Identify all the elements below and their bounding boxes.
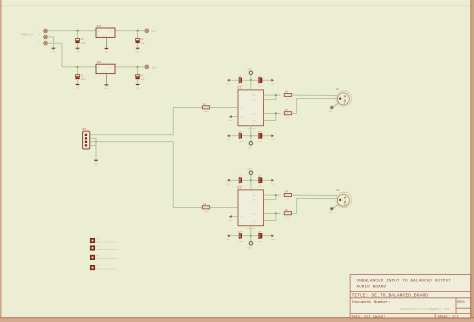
wire IC2 OUT+ — [264, 199, 276, 201]
svg-text:XLR3F: XLR3F — [341, 90, 347, 93]
wire to C3 — [77, 67, 79, 75]
wire IC2 V+ pin — [250, 174, 252, 190]
wire IC2 SEN+ — [264, 194, 276, 196]
svg-text:OUT-: OUT- — [252, 112, 257, 115]
ground connector GND — [52, 48, 56, 53]
svg-text:XLR3F: XLR3F — [341, 191, 347, 194]
pad X2-1 — [44, 29, 48, 33]
ground IC2 GND pin — [228, 215, 232, 222]
wire IC1 GND pin — [232, 116, 238, 118]
wire IC1 OUT- — [264, 112, 276, 114]
junction JP1 ground cross — [95, 141, 97, 143]
wire C1 to ground — [77, 44, 79, 47]
ground IC3 GND — [105, 48, 109, 53]
svg-text:7812: 7812 — [102, 34, 108, 37]
svg-text:JP1: JP1 — [82, 128, 87, 131]
resistor R2 — [202, 203, 209, 213]
svg-text:TITLE: SE_TO_BALANCED_BOARD: TITLE: SE_TO_BALANCED_BOARD — [352, 294, 429, 299]
regulator IC4 7912 — [96, 61, 115, 73]
wire sense- tie — [275, 113, 277, 120]
wire cold from resistor — [292, 212, 297, 214]
svg-text:UNBALANCED INPUT TO BALANCED O: UNBALANCED INPUT TO BALANCED OUTPUT — [357, 279, 452, 283]
wire to C4 — [137, 67, 139, 75]
svg-text:47R: 47R — [285, 98, 290, 101]
capacitor C6 — [258, 74, 262, 87]
wire X2-2 to ground — [47, 36, 53, 38]
svg-text:47R: 47R — [285, 116, 290, 119]
wire to R2 — [173, 207, 202, 209]
wire C3 to ground — [77, 80, 79, 83]
pad X2-3 — [44, 41, 48, 45]
ground IC2 top rail right — [271, 179, 275, 186]
wire sense+ tie — [275, 195, 277, 200]
wire IC4 ground pin — [105, 74, 107, 84]
pad +12V output — [145, 29, 149, 33]
wire down to ground — [52, 37, 54, 47]
wire R1 to IC1 input — [210, 107, 238, 109]
header JP1 audio input — [82, 128, 90, 149]
ground IC1 top rail right — [271, 79, 275, 86]
wire IC2 V+ decoupling rail — [229, 179, 272, 181]
wire down to -12V rail — [61, 43, 63, 67]
junction C4 tap — [137, 66, 139, 68]
frame right border — [471, 0, 474, 322]
svg-text:+12V: +12V — [246, 68, 252, 71]
op-amp driver IC1 DRV134 — [237, 86, 264, 130]
svg-text:10u: 10u — [141, 78, 146, 81]
capacitor C11 — [238, 230, 244, 243]
frame bottom border — [0, 318, 474, 322]
ground C4 — [136, 84, 140, 89]
pad X2-2 — [44, 35, 48, 39]
wire IC2 V- decoupling rail — [229, 235, 272, 237]
title block frame — [350, 275, 471, 318]
svg-text:REV:: REV: — [457, 301, 466, 305]
wire out+ to resistor — [276, 94, 281, 96]
wire cold riser — [296, 98, 298, 113]
supply +12V IC2 — [246, 168, 252, 174]
wire JP1-1 signal L — [90, 134, 173, 136]
mounting hole H2 — [90, 244, 119, 250]
wire IC1 V+ pin — [250, 74, 252, 90]
svg-text:-12V: -12V — [151, 66, 157, 69]
svg-text:V-: V- — [252, 122, 255, 125]
title block background — [350, 275, 471, 318]
wire to C1 — [77, 31, 79, 39]
wire cold to XLR2 — [297, 197, 338, 199]
ground C2 — [136, 48, 140, 53]
wire JP1-3 signal R — [90, 141, 173, 143]
wire IC1 V- decoupling rail — [229, 135, 272, 137]
svg-text:-12V: -12V — [246, 247, 252, 250]
svg-text:100u: 100u — [81, 78, 87, 81]
capacitor C8 — [258, 174, 262, 187]
ground IC1 bottom rail left — [226, 134, 230, 141]
wire cold riser — [296, 198, 298, 213]
wire IC1 V+ decoupling rail — [229, 79, 272, 81]
ground IC4 GND — [105, 85, 109, 90]
svg-text:MOUNT-PAD-ROUND3.2: MOUNT-PAD-ROUND3.2 — [96, 248, 119, 251]
capacitor C1 — [75, 38, 86, 45]
capacitor C5 — [238, 74, 244, 87]
junction C3 tap — [76, 66, 78, 68]
ground C3 — [76, 84, 80, 89]
svg-text:100n: 100n — [238, 84, 244, 87]
capacitor C12 — [258, 230, 263, 243]
junction IC2 out- — [275, 212, 277, 214]
ground IC1 top rail left — [226, 79, 230, 86]
svg-text:100n: 100n — [238, 140, 244, 143]
wire JP1-2 to ground — [90, 137, 96, 139]
mounting hole H3 — [90, 254, 119, 260]
resistor R5 — [284, 109, 291, 119]
svg-text:-12V: -12V — [246, 147, 252, 150]
ground IC1 bottom rail right — [271, 134, 275, 141]
svg-text:C11: C11 — [238, 230, 243, 233]
wire XLR2 pin1 to ground — [332, 205, 339, 209]
wire IC1 SEN+ — [264, 94, 276, 96]
junction IC1 out+ — [275, 94, 277, 96]
wire down to ground — [95, 138, 97, 159]
supply -12V IC2 — [249, 242, 253, 246]
ground IC2 bottom rail left — [226, 234, 230, 241]
capacitor C7 — [238, 174, 244, 187]
ground JP1 — [94, 160, 98, 165]
mounting hole H1 — [90, 237, 119, 243]
wire R2 to IC2 input — [210, 207, 238, 209]
supply +12V IC1 — [246, 68, 252, 74]
op-amp driver IC2 DRV134 — [237, 186, 264, 230]
junction C1 tap — [76, 30, 78, 32]
svg-text:100R: 100R — [203, 110, 209, 113]
wire sense+ tie — [275, 95, 277, 100]
wire IC1 SEN- — [264, 120, 276, 122]
svg-text:IN: IN — [98, 66, 100, 69]
wire cold from resistor — [292, 112, 297, 114]
svg-text:POWER_IN: POWER_IN — [21, 34, 34, 37]
supply -12V IC1 — [249, 142, 253, 146]
capacitor C10 — [258, 130, 263, 143]
resistor R1 — [202, 103, 209, 113]
capacitor C4 — [136, 74, 146, 81]
wire IC1 OUT+ — [264, 99, 276, 101]
junction IC1 V- rail — [250, 135, 252, 137]
wire X2-3 — [47, 42, 62, 44]
svg-text:IC4: IC4 — [97, 61, 102, 64]
svg-text:IN: IN — [240, 107, 242, 110]
svg-text:MOUNT-PAD-ROUND3.2: MOUNT-PAD-ROUND3.2 — [96, 240, 119, 243]
regulator IC3 7812 — [96, 25, 115, 37]
svg-text:100u: 100u — [81, 42, 87, 45]
junction C2 tap — [137, 30, 139, 32]
svg-text:100R: 100R — [203, 210, 209, 213]
wire IC2 SEN- — [264, 220, 276, 222]
ground IC1 GND pin — [228, 115, 232, 122]
wire sense- tie — [275, 213, 277, 220]
wire hot to XLR2 — [292, 194, 338, 196]
wire +12V output rail — [115, 30, 145, 32]
wire IC2 OUT- — [264, 212, 276, 214]
svg-text:DRV134: DRV134 — [248, 127, 257, 130]
wire IC3 ground pin — [105, 37, 107, 47]
ground C1 — [76, 48, 80, 53]
svg-text:OUT-: OUT- — [252, 212, 257, 215]
wire IC1 V- pin — [250, 126, 252, 142]
capacitor C3 — [75, 74, 86, 81]
svg-text:AUDIO BOARD: AUDIO BOARD — [357, 285, 387, 289]
ground XLR1 shell — [329, 106, 334, 113]
svg-text:C12: C12 — [258, 230, 263, 233]
svg-text:DRV134: DRV134 — [248, 227, 257, 230]
wire +12V input rail — [47, 30, 96, 32]
wire out- to resistor — [276, 212, 281, 214]
wire cold to XLR1 — [297, 97, 338, 99]
pad -12V output — [145, 65, 149, 69]
svg-text:MOUNT-PAD-ROUND3.2: MOUNT-PAD-ROUND3.2 — [96, 257, 119, 260]
wire out+ to resistor — [276, 194, 281, 196]
frame top faint line — [2, 5, 472, 7]
capacitor C9 — [238, 130, 244, 143]
svg-text:10u: 10u — [141, 42, 146, 45]
svg-text:IN: IN — [240, 207, 242, 210]
wire -12V output rail — [115, 66, 145, 68]
svg-text:MOUNT-PAD-ROUND3.2: MOUNT-PAD-ROUND3.2 — [96, 267, 119, 270]
svg-text:ibanezuercsilica@gmail.com: ibanezuercsilica@gmail.com — [400, 307, 450, 311]
junction IC2 V+ rail — [250, 179, 252, 181]
connector X1 XLR output — [336, 88, 352, 106]
junction IC1 V+ rail — [250, 79, 252, 81]
wire to C2 — [137, 31, 139, 39]
resistor R3 — [284, 91, 291, 101]
svg-text:47R: 47R — [285, 216, 290, 219]
resistor R4 — [284, 191, 291, 201]
wire out- to resistor — [276, 112, 281, 114]
wire to R1 — [173, 107, 202, 109]
svg-text:+12V: +12V — [246, 168, 252, 171]
capacitor C2 — [136, 38, 146, 45]
svg-text:Document Number:: Document Number: — [352, 300, 390, 305]
wire XLR1 pin1 to ground — [332, 103, 339, 107]
svg-text:IN: IN — [98, 30, 100, 33]
ground IC2 top rail left — [226, 179, 230, 186]
wire -12V input rail — [62, 66, 96, 68]
svg-text:+12V: +12V — [151, 30, 157, 33]
wire JP1-4 to ground — [90, 144, 96, 146]
wire up to IC1 input — [172, 108, 174, 136]
mounting hole H4 — [90, 264, 119, 270]
svg-text:100n: 100n — [238, 240, 244, 243]
ground XLR2 shell — [329, 207, 334, 214]
ground IC2 bottom rail right — [271, 234, 275, 241]
svg-text:IC3: IC3 — [97, 25, 102, 28]
wire IC2 GND pin — [232, 216, 238, 218]
resistor R6 — [284, 209, 291, 219]
wire down to IC2 input — [172, 141, 174, 207]
connector X2 XLR output — [336, 189, 352, 207]
svg-text:7912: 7912 — [102, 71, 108, 74]
wire C4 to ground — [137, 80, 139, 83]
svg-text:C10: C10 — [258, 130, 263, 133]
svg-text:Sheet: 1/1: Sheet: 1/1 — [438, 314, 459, 319]
svg-text:V-: V- — [252, 222, 255, 225]
frame left border — [0, 0, 2, 322]
junction IC1 out- — [275, 112, 277, 114]
svg-text:Date: not saved!: Date: not saved! — [352, 314, 386, 319]
wire C2 to ground — [137, 44, 139, 47]
junction IC2 V- rail — [250, 235, 252, 237]
svg-text:100n: 100n — [238, 184, 244, 187]
wire hot to XLR1 — [292, 94, 338, 96]
wire IC2 V- pin — [250, 226, 252, 242]
svg-text:47R: 47R — [285, 198, 290, 201]
junction IC2 out+ — [275, 194, 277, 196]
